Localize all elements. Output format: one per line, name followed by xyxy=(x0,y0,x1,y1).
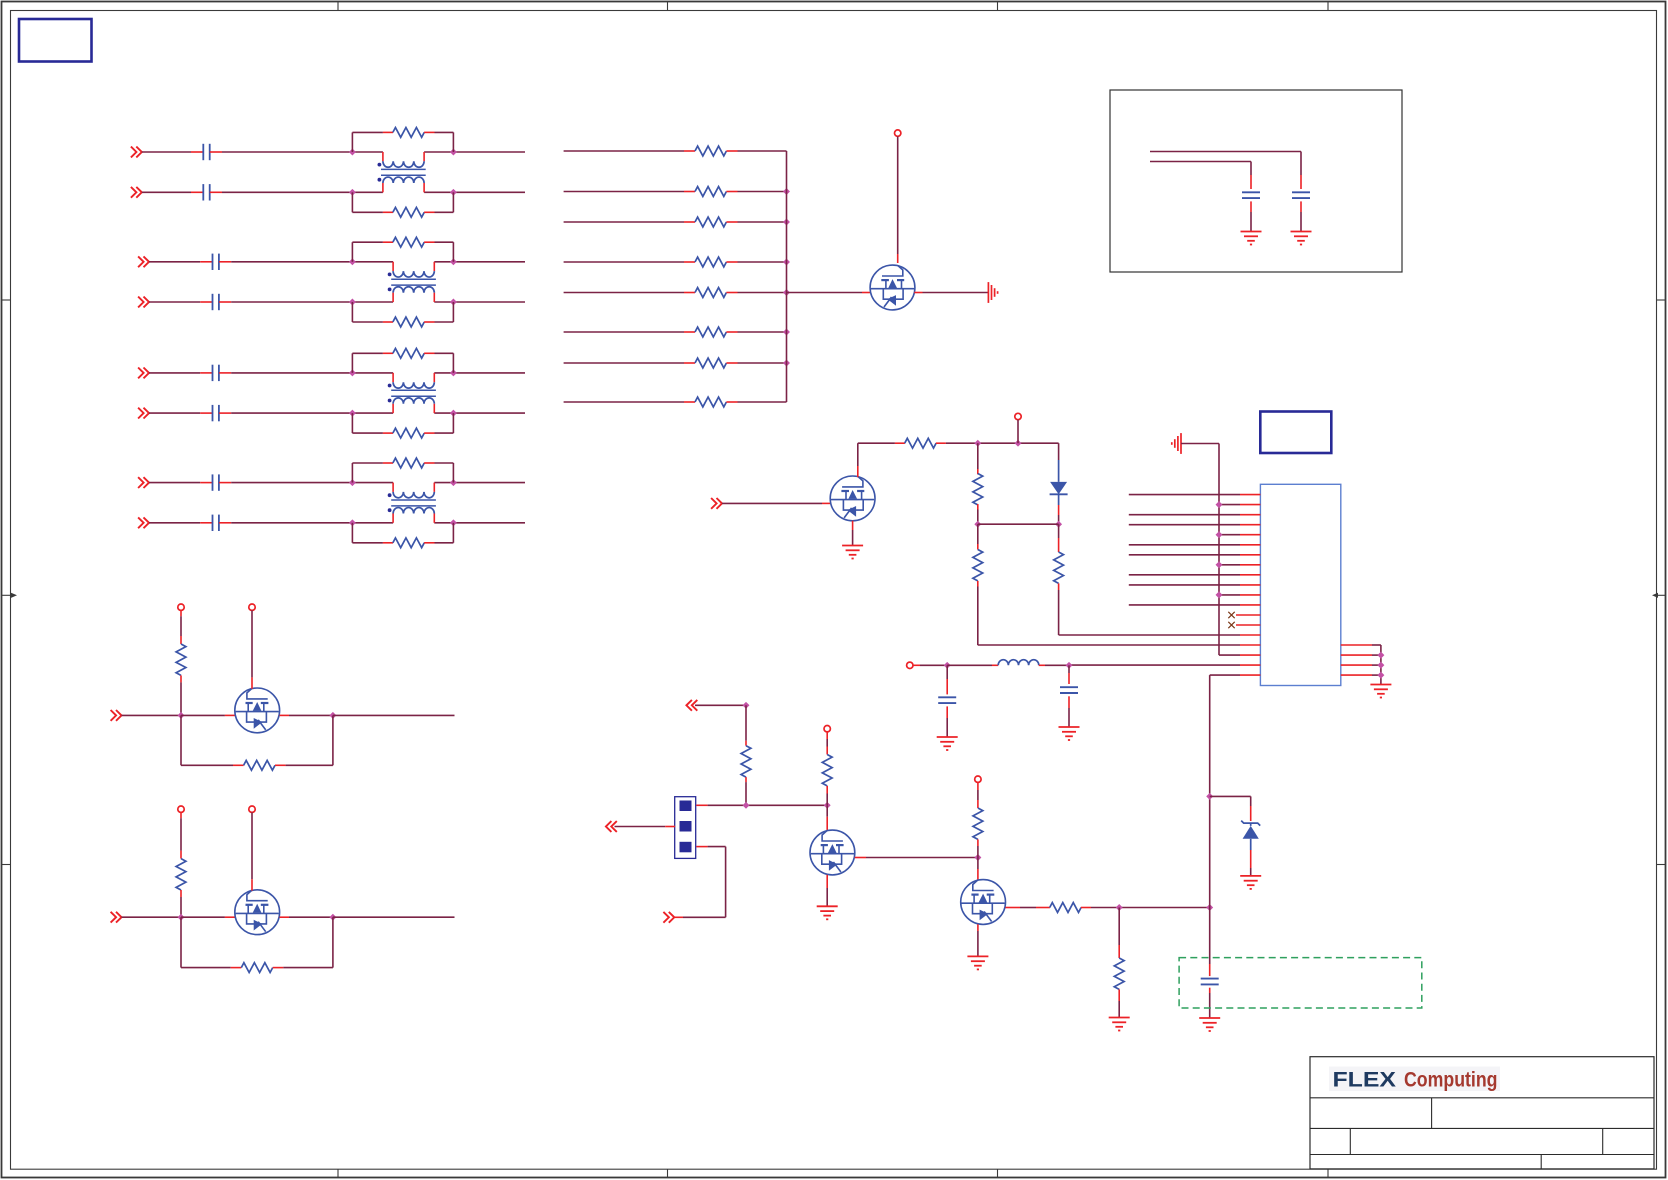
svg-text:Computing: Computing xyxy=(1404,1067,1498,1091)
svg-text:FLEX: FLEX xyxy=(1333,1067,1397,1091)
